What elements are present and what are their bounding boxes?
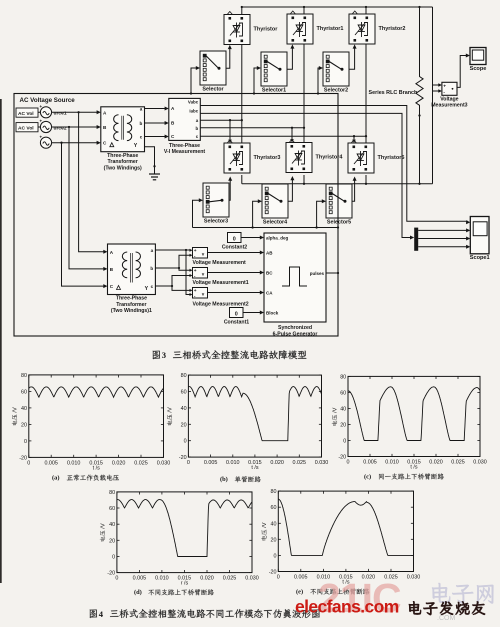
wire pulses output	[326, 272, 339, 274]
svg-text:20: 20	[340, 423, 346, 429]
wire phase 3 from source to transformer C	[40, 141, 101, 145]
chart (d) axis titles	[100, 523, 189, 586]
wire transformer2 a to voltage measurements	[155, 249, 192, 296]
svg-text:0: 0	[235, 311, 238, 317]
chart (b) single device open	[179, 373, 328, 466]
svg-text:60: 60	[181, 390, 187, 396]
wire Selector output to Thyristor gate	[226, 45, 232, 68]
svg-text:0.025: 0.025	[451, 460, 465, 466]
scan artifact left edge line	[0, 99, 2, 583]
svg-text:20: 20	[271, 537, 277, 543]
wire DC- rail up to Voltage Measurement3 - input	[433, 89, 442, 92]
svg-text:0.030: 0.030	[245, 576, 259, 582]
constant block "Constant1"	[224, 308, 249, 326]
generator block "Synchronized 6-Pulse Generator"	[264, 233, 326, 338]
voltage measurement "Voltage Measurement1"	[193, 268, 249, 287]
svg-text:-20: -20	[179, 455, 187, 461]
svg-text:0.020: 0.020	[200, 576, 214, 582]
svg-text:20: 20	[109, 538, 115, 544]
svg-text:b: b	[139, 121, 142, 126]
svg-text:+: +	[40, 119, 43, 124]
svg-text:0: 0	[233, 236, 236, 242]
svg-text:0: 0	[187, 460, 190, 466]
measurement block "Three-Phase V-I Measurement"	[164, 98, 205, 155]
svg-text:0.005: 0.005	[44, 460, 58, 466]
svg-text:0: 0	[343, 439, 346, 445]
wire lower pulse bus and risers to lower selectors	[193, 198, 340, 228]
svg-text:v: v	[202, 291, 205, 296]
svg-text:Selector: Selector	[202, 87, 224, 93]
wire Selector1 output to Thyristor1 gate	[287, 44, 294, 69]
svg-text:0.020: 0.020	[112, 460, 126, 466]
node DC+ top rail	[241, 6, 433, 8]
wire phase b column	[303, 44, 305, 184]
svg-text:20: 20	[181, 422, 187, 428]
svg-text:+: +	[194, 269, 197, 274]
svg-text:0.010: 0.010	[226, 460, 240, 466]
watermark dianzifashaoyou (dark red)	[409, 601, 485, 615]
wire thyristor cathodes to top rail	[242, 7, 366, 15]
svg-text:60: 60	[109, 506, 115, 512]
svg-text:Scope: Scope	[470, 66, 487, 72]
svg-text:-20: -20	[107, 571, 115, 577]
svg-text:0: 0	[24, 439, 27, 445]
wire phase b output	[200, 127, 304, 129]
chart (a) axis titles	[12, 407, 100, 471]
svg-text:-20: -20	[19, 455, 27, 461]
svg-text:40: 40	[181, 406, 187, 412]
svg-text:Synchronized: Synchronized	[278, 325, 312, 331]
wire phase c column	[365, 44, 367, 184]
svg-text:40: 40	[340, 406, 346, 412]
svg-text:+: +	[194, 289, 197, 294]
svg-text:0.020: 0.020	[429, 460, 443, 466]
chart (e) waveform	[269, 489, 421, 580]
svg-text:r /s: r /s	[181, 580, 189, 586]
svg-text:Y: Y	[145, 286, 149, 292]
svg-text:0: 0	[112, 555, 115, 561]
svg-text:80: 80	[21, 373, 27, 379]
wire phase 1 branch down to transformer2 A	[79, 112, 108, 254]
svg-text:0: 0	[274, 553, 277, 559]
svg-text:4: 4	[99, 609, 104, 619]
svg-text:elecfans.com: elecfans.com	[295, 597, 399, 617]
svg-text:pulses: pulses	[310, 271, 325, 276]
svg-text:urce2: urce2	[54, 125, 67, 131]
svg-text:(a): (a)	[52, 475, 59, 482]
svg-text:Three-Phase: Three-Phase	[107, 153, 138, 159]
svg-text:0: 0	[115, 576, 118, 582]
voltage measurement "Voltage Measurement"	[193, 248, 247, 266]
svg-text:Voltage Measurement1: Voltage Measurement1	[193, 280, 249, 286]
node DC- bottom rail	[242, 183, 433, 185]
wire VM3 output to Scope	[457, 54, 470, 88]
svg-text:60: 60	[340, 390, 346, 396]
AC voltage source circle 1	[40, 104, 52, 118]
thyristor "Thyristor5"	[348, 140, 404, 173]
wire phase b to Thyristor4 anode	[290, 127, 294, 143]
svg-text:.COM: .COM	[437, 615, 455, 622]
selector "Selector1"	[261, 52, 287, 94]
wire Selector4 output to Thyristor4 gate	[288, 176, 294, 201]
figure 3 caption	[153, 350, 307, 360]
svg-text:AC Vol: AC Vol	[18, 111, 34, 117]
svg-text:0: 0	[277, 575, 280, 581]
ground symbol	[145, 147, 161, 180]
wire transformer2 b to voltage measurements	[155, 254, 192, 272]
svg-text:BC: BC	[266, 271, 273, 276]
annotation box AC Voltage Source group	[14, 94, 338, 337]
svg-text:(b): (b)	[220, 476, 228, 483]
thyristor "Thyristor1"	[287, 11, 343, 44]
svg-text:Transformer: Transformer	[116, 302, 146, 308]
wire phase 1 from source to transformer A	[38, 110, 101, 114]
svg-text:Three-Phase: Three-Phase	[169, 143, 200, 149]
svg-text:Thyristor3: Thyristor3	[254, 155, 281, 161]
svg-text:Selector2: Selector2	[324, 88, 348, 94]
wire phase a output	[200, 119, 242, 121]
svg-text:Three-Phase: Three-Phase	[116, 296, 147, 302]
svg-text:40: 40	[271, 521, 277, 527]
svg-text:80: 80	[109, 490, 115, 496]
svg-text:Iabc: Iabc	[189, 108, 198, 113]
svg-text:Measurement3: Measurement3	[431, 103, 467, 109]
transformer "Three-Phase Transformer (Two Windings)1"	[108, 244, 156, 314]
thyristor "Thyristor3"	[224, 140, 280, 173]
svg-text:-20: -20	[338, 455, 346, 461]
chart (c) same-leg both devices open	[338, 374, 486, 465]
svg-text:Thyristor1: Thyristor1	[317, 26, 344, 32]
scope Scope1	[470, 217, 490, 262]
svg-text:t /s: t /s	[410, 464, 417, 470]
AC voltage source circle 2	[40, 119, 52, 133]
svg-text:0.010: 0.010	[385, 460, 399, 466]
thyristor "Thyristor2"	[349, 11, 405, 44]
svg-text:0.005: 0.005	[204, 460, 218, 466]
svg-text:+: +	[194, 249, 197, 254]
svg-text:0.030: 0.030	[315, 460, 329, 466]
svg-text:0: 0	[184, 439, 187, 445]
wire Vabc measurement output routed to Scope1	[200, 106, 470, 225]
svg-text:0.025: 0.025	[223, 576, 237, 582]
svg-text:(c): (c)	[364, 473, 371, 480]
wire phase c output	[200, 135, 366, 137]
selector "Selector4"	[262, 184, 288, 226]
wire Selector3 output to Thyristor3 gate	[228, 177, 232, 201]
svg-text:Thyristor4: Thyristor4	[316, 155, 344, 161]
wire transformer1 b to V-I Measurement B	[145, 121, 169, 125]
svg-text:alpha_deg: alpha_deg	[266, 236, 289, 241]
wire transformer2 c to voltage measurements	[155, 274, 192, 292]
wire Constant1 to generator Block	[243, 311, 264, 315]
wire pulse feed risers to upper selectors	[190, 66, 323, 95]
selector "Selector2"	[323, 52, 349, 94]
voltage measurement "Voltage Measurement2"	[193, 288, 249, 308]
svg-text:c: c	[140, 135, 143, 140]
svg-text:a: a	[151, 248, 154, 253]
svg-text:0.010: 0.010	[155, 576, 169, 582]
svg-text:+: +	[40, 104, 43, 109]
wire transformer1 c to V-I Measurement C	[145, 135, 169, 139]
wire phase 3 branch down to transformer2 C	[62, 143, 108, 288]
wire transformer1 a to V-I Measurement A	[145, 107, 169, 111]
svg-text:b: b	[150, 266, 153, 271]
svg-text:(Two Windings): (Two Windings)	[104, 165, 142, 171]
chart (e) caption	[296, 588, 369, 595]
wire phase 2 branch down to transformer2 B	[69, 127, 108, 271]
svg-text:b: b	[196, 126, 199, 131]
svg-text:-20: -20	[269, 570, 277, 576]
wire Voltage Measurement2 output to generator CA	[208, 291, 265, 295]
svg-text:80: 80	[181, 373, 187, 379]
svg-text:/V: /V	[13, 407, 19, 413]
svg-text:Thyristor: Thyristor	[254, 27, 279, 33]
svg-text:80: 80	[340, 374, 346, 380]
svg-text:v: v	[202, 271, 205, 276]
chart (b) axis titles	[167, 407, 259, 471]
chart (a) normal load voltage	[19, 373, 170, 467]
wire phase c to Thyristor5 anode	[352, 135, 356, 143]
wire Iabc measurement output routed to Mux	[200, 113, 414, 239]
svg-text:urce1: urce1	[54, 111, 67, 117]
svg-text:0.030: 0.030	[407, 575, 421, 581]
svg-text:0.025: 0.025	[293, 460, 307, 466]
svg-text:Voltage Measurement: Voltage Measurement	[193, 260, 247, 266]
svg-text:a: a	[140, 107, 143, 112]
svg-text:+: +	[40, 134, 43, 139]
chart (c) caption	[364, 473, 444, 480]
wire Voltage Measurement1 output to generator BC	[208, 271, 265, 275]
watermark dianziwang (lavender)	[432, 583, 493, 604]
svg-text:0.010: 0.010	[67, 460, 81, 466]
constant block "Constant2"	[222, 233, 247, 251]
selector "Selector"	[200, 51, 226, 93]
svg-text:Series RLC Branch: Series RLC Branch	[369, 90, 418, 96]
svg-text:/V: /V	[168, 407, 174, 413]
svg-text:/V: /V	[333, 407, 339, 413]
scope Scope	[470, 48, 487, 73]
svg-text:40: 40	[21, 406, 27, 412]
svg-text:Thyristor5: Thyristor5	[378, 155, 405, 161]
wire phase a column	[241, 45, 243, 184]
thyristor "Thyristor"	[224, 12, 278, 45]
svg-text:Vabc: Vabc	[188, 100, 199, 105]
svg-text:c: c	[151, 284, 154, 289]
svg-text:60: 60	[21, 389, 27, 395]
transformer "Three-Phase Transformer (Two Windings)"	[101, 107, 145, 172]
chart (a) caption	[52, 475, 119, 482]
svg-text:(Two Windings)1: (Two Windings)1	[111, 308, 152, 314]
svg-text:80: 80	[271, 489, 277, 495]
AC voltage source circle 3	[40, 134, 52, 148]
svg-text:0.005: 0.005	[363, 460, 377, 466]
chart (e) axis titles	[261, 522, 350, 585]
svg-text:Voltage Measurement2: Voltage Measurement2	[193, 302, 249, 308]
svg-text:0.005: 0.005	[133, 576, 147, 582]
svg-text:Constant2: Constant2	[222, 245, 247, 251]
svg-text:AB: AB	[266, 251, 273, 256]
svg-text:CA: CA	[266, 291, 273, 296]
thyristor "Thyristor4"	[286, 140, 343, 173]
svg-text:40: 40	[109, 522, 115, 528]
chart (d) caption	[134, 589, 214, 596]
svg-text:Selector5: Selector5	[327, 220, 351, 226]
svg-text:v: v	[202, 251, 205, 256]
svg-text:Thyristor2: Thyristor2	[379, 26, 406, 32]
voltage measurement VM3 "Voltage Measurement3"	[431, 82, 467, 108]
svg-text:/V: /V	[262, 522, 268, 528]
chart (b) caption	[220, 476, 261, 483]
svg-text:0.025: 0.025	[134, 460, 148, 466]
wire Constant2 to generator alpha_deg	[241, 236, 264, 240]
selector "Selector3"	[203, 183, 229, 225]
svg-text:Selector3: Selector3	[204, 219, 228, 225]
chart (c) axis titles	[332, 407, 418, 470]
wire Selector5 output to Thyristor5 gate	[352, 177, 357, 202]
svg-text:Block: Block	[266, 310, 279, 315]
svg-text:0.030: 0.030	[473, 460, 487, 466]
svg-text:+: +	[443, 84, 446, 89]
svg-text:Selector4: Selector4	[263, 220, 287, 226]
svg-text:20: 20	[21, 422, 27, 428]
selector "Selector5"	[326, 184, 352, 226]
svg-text:/V: /V	[101, 523, 107, 529]
svg-text:0.005: 0.005	[294, 575, 308, 581]
svg-text:0.030: 0.030	[157, 460, 171, 466]
svg-text:3: 3	[162, 350, 166, 360]
wire Selector2 output to Thyristor2 gate	[349, 44, 357, 69]
svg-text:Selector1: Selector1	[262, 88, 286, 94]
svg-text:AC Voltage Source: AC Voltage Source	[20, 97, 76, 104]
mux block	[414, 228, 418, 251]
svg-text:Scope1: Scope1	[470, 255, 490, 261]
svg-text:Y: Y	[134, 143, 138, 149]
svg-text:0: 0	[347, 460, 350, 466]
svg-text:Transformer: Transformer	[108, 159, 138, 165]
figure 4 caption	[90, 609, 320, 619]
wire DC+ rail down to Voltage Measurement3 + input	[433, 7, 442, 184]
svg-text:AC Vol: AC Vol	[18, 125, 34, 131]
svg-text:Constant1: Constant1	[224, 320, 249, 326]
resistor Series RLC Branch (load)	[369, 7, 424, 184]
wire phase a to Thyristor3 anode	[228, 119, 232, 143]
wire mux outputs to Scope1	[418, 228, 470, 248]
svg-text:60: 60	[271, 505, 277, 511]
chart (d) different-leg devices open	[107, 490, 258, 582]
AC source block "AC Vol" 2	[16, 123, 67, 132]
svg-text:0: 0	[27, 460, 30, 466]
svg-text:t /s: t /s	[93, 465, 100, 471]
svg-text:0.020: 0.020	[270, 460, 284, 466]
svg-text:6-Pulse Generator: 6-Pulse Generator	[273, 332, 318, 338]
wire phase 2 from source to transformer B	[38, 125, 101, 129]
svg-text:(d): (d)	[134, 589, 142, 596]
svg-text:t /s: t /s	[251, 465, 258, 471]
svg-text:V-I Measurement: V-I Measurement	[164, 149, 205, 155]
AC source block "AC Vol" 1	[16, 108, 67, 117]
wire Voltage Measurement output to generator AB	[208, 251, 265, 255]
svg-text:(e): (e)	[296, 588, 303, 595]
